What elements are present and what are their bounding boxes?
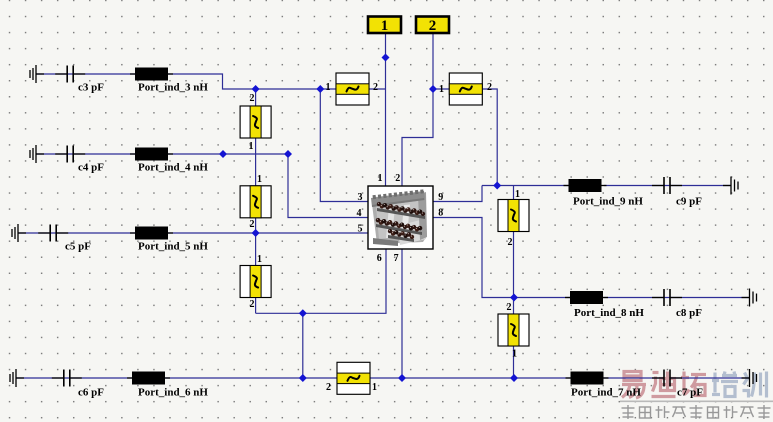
svg-text:1: 1 xyxy=(378,173,383,184)
subnetwork H1 (series) xyxy=(336,73,369,105)
svg-text:c8 pF: c8 pF xyxy=(676,307,702,319)
capacitor c8 xyxy=(652,289,682,306)
svg-text:4: 4 xyxy=(357,208,362,219)
inductor Port_ind_9 xyxy=(564,179,607,192)
svg-text:Port_ind_6 nH: Port_ind_6 nH xyxy=(138,387,208,399)
port term c3 ground xyxy=(30,65,44,83)
svg-text:c4 pF: c4 pF xyxy=(78,162,104,174)
node junction J13 xyxy=(510,374,518,382)
watermark underline xyxy=(620,400,773,402)
svg-text:2: 2 xyxy=(250,219,255,230)
svg-text:c3 pF: c3 pF xyxy=(78,82,104,94)
subnetwork H3 (series bottom) xyxy=(337,362,370,394)
svg-text:2: 2 xyxy=(429,18,437,34)
svg-text:5: 5 xyxy=(358,224,363,235)
subnetwork H2 (series) xyxy=(449,73,482,105)
shunt subnetwork R1 xyxy=(498,200,529,232)
wire c4 row xyxy=(36,153,288,155)
shunt subnetwork L3 xyxy=(240,266,271,298)
component U1 box xyxy=(368,186,433,249)
wire vertical through right subnetworks R1 R2 xyxy=(513,186,515,379)
port term c8 ground xyxy=(742,289,757,307)
capacitor c6 xyxy=(52,370,82,387)
node junction J8 xyxy=(252,229,260,237)
node junction J12 xyxy=(398,374,406,382)
wire bottom jog to pin 6 xyxy=(256,313,303,378)
node junction J6 xyxy=(219,150,227,158)
svg-text:1: 1 xyxy=(249,141,254,152)
watermark tagline rf antenna design expert xyxy=(622,405,771,419)
svg-text:1: 1 xyxy=(257,174,262,185)
inductor Port_ind_8 xyxy=(565,291,608,304)
svg-text:Port_ind_3 nH: Port_ind_3 nH xyxy=(138,82,208,94)
capacitor c4 xyxy=(55,146,85,163)
svg-text:1: 1 xyxy=(515,189,520,200)
svg-text:1: 1 xyxy=(326,82,331,93)
inductor Port_ind_6 xyxy=(127,372,170,385)
svg-text:Port_ind_5 nH: Port_ind_5 nH xyxy=(138,241,208,253)
wire c5 row to pin 5 xyxy=(18,232,368,234)
svg-text:2: 2 xyxy=(250,299,255,310)
svg-text:2: 2 xyxy=(395,173,400,184)
wire port P2 vertical xyxy=(433,33,449,89)
svg-text:1: 1 xyxy=(512,349,517,360)
svg-text:6: 6 xyxy=(377,253,382,264)
shunt subnetwork R2 xyxy=(498,314,529,346)
inductor Port_ind_7 xyxy=(566,372,609,385)
wire vertical through left subnetworks xyxy=(255,89,257,313)
svg-text:Port_ind_4 nH: Port_ind_4 nH xyxy=(138,162,208,174)
watermark text yiditop training xyxy=(622,372,767,399)
svg-text:2: 2 xyxy=(373,82,378,93)
wire H2 out down to node A xyxy=(483,89,497,186)
capacitor c5 xyxy=(38,225,68,242)
svg-text:1: 1 xyxy=(381,18,389,34)
svg-text:8: 8 xyxy=(438,208,443,219)
wire row 8 xyxy=(514,297,570,299)
svg-text:1: 1 xyxy=(439,84,444,95)
node junction J7 xyxy=(284,150,292,158)
wire c3 row from port to subnetwork H1 xyxy=(36,74,336,89)
svg-text:1: 1 xyxy=(257,254,262,265)
node junction J11 xyxy=(299,374,307,382)
wire pin 9 xyxy=(433,186,482,202)
port term c5 ground xyxy=(12,224,26,242)
svg-text:Port_ind_7 nH: Port_ind_7 nH xyxy=(571,387,641,399)
port P1 xyxy=(368,17,401,35)
wire pin 3 branch xyxy=(320,89,368,202)
node junction J10 xyxy=(299,309,307,317)
wire row 9 xyxy=(482,185,569,187)
inductor Port_ind_3 xyxy=(130,68,173,81)
svg-text:7: 7 xyxy=(394,253,399,264)
svg-text:2: 2 xyxy=(507,302,512,313)
svg-text:c6 pF: c6 pF xyxy=(78,387,104,399)
node junction J4 xyxy=(429,85,437,93)
port P2 xyxy=(416,17,449,35)
node junction J9 xyxy=(510,294,518,302)
svg-text:c7 pF: c7 pF xyxy=(677,387,703,399)
port term c7 ground xyxy=(742,369,757,387)
svg-text:9: 9 xyxy=(438,192,443,203)
node junction J5 xyxy=(493,182,501,190)
wire H1 out to node xyxy=(369,88,386,90)
capacitor c9 xyxy=(652,177,682,194)
port term c9 ground xyxy=(723,177,738,195)
svg-text:2: 2 xyxy=(250,93,255,104)
svg-text:c5 pF: c5 pF xyxy=(65,241,91,253)
wire pin 8 to node B xyxy=(433,218,514,298)
wire pin 7 down xyxy=(401,249,403,378)
shunt subnetwork L1 xyxy=(240,106,271,138)
wire port P1 vertical to pin 1 xyxy=(385,33,387,186)
svg-text:2: 2 xyxy=(508,237,513,248)
wire c6 bus row xyxy=(16,377,337,379)
capacitor c3 xyxy=(55,66,85,83)
wire pin 4 branch xyxy=(288,154,368,218)
port term c6 ground xyxy=(10,369,24,387)
svg-text:3: 3 xyxy=(358,192,363,203)
capacitor c7 xyxy=(652,370,682,387)
svg-text:1: 1 xyxy=(372,382,377,393)
svg-text:Port_ind_9 nH: Port_ind_9 nH xyxy=(573,196,643,208)
node junction J3 xyxy=(316,85,324,93)
svg-text:Port_ind_8 nH: Port_ind_8 nH xyxy=(574,307,644,319)
component U1 3d picture xyxy=(371,189,427,246)
svg-text:c9 pF: c9 pF xyxy=(676,196,702,208)
node junction J2 xyxy=(252,85,260,93)
shunt subnetwork L2 xyxy=(240,186,271,218)
svg-text:2: 2 xyxy=(487,82,492,93)
inductor Port_ind_4 xyxy=(130,148,173,161)
inductor Port_ind_5 xyxy=(130,227,173,240)
node junction J1 xyxy=(382,54,390,62)
wire pin 2 path xyxy=(402,89,433,186)
port term c4 ground xyxy=(30,145,44,163)
svg-text:2: 2 xyxy=(326,382,331,393)
